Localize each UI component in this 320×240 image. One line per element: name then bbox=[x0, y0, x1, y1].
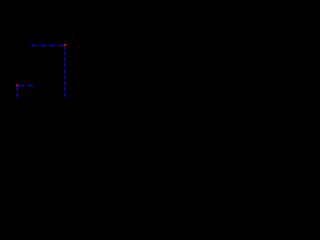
node P2: red data point marker bbox=[16, 84, 18, 86]
wire: horizontal dashed guide line from point P2 toward right bbox=[19, 85, 33, 87]
wire: horizontal dashed guide line from point P1 toward left bbox=[31, 45, 63, 47]
node P1: red data point marker bbox=[64, 44, 66, 46]
wire: vertical dashed guide line from point P2 down bbox=[16, 87, 18, 97]
wire: vertical dashed guide line from point P1 down bbox=[64, 47, 66, 97]
